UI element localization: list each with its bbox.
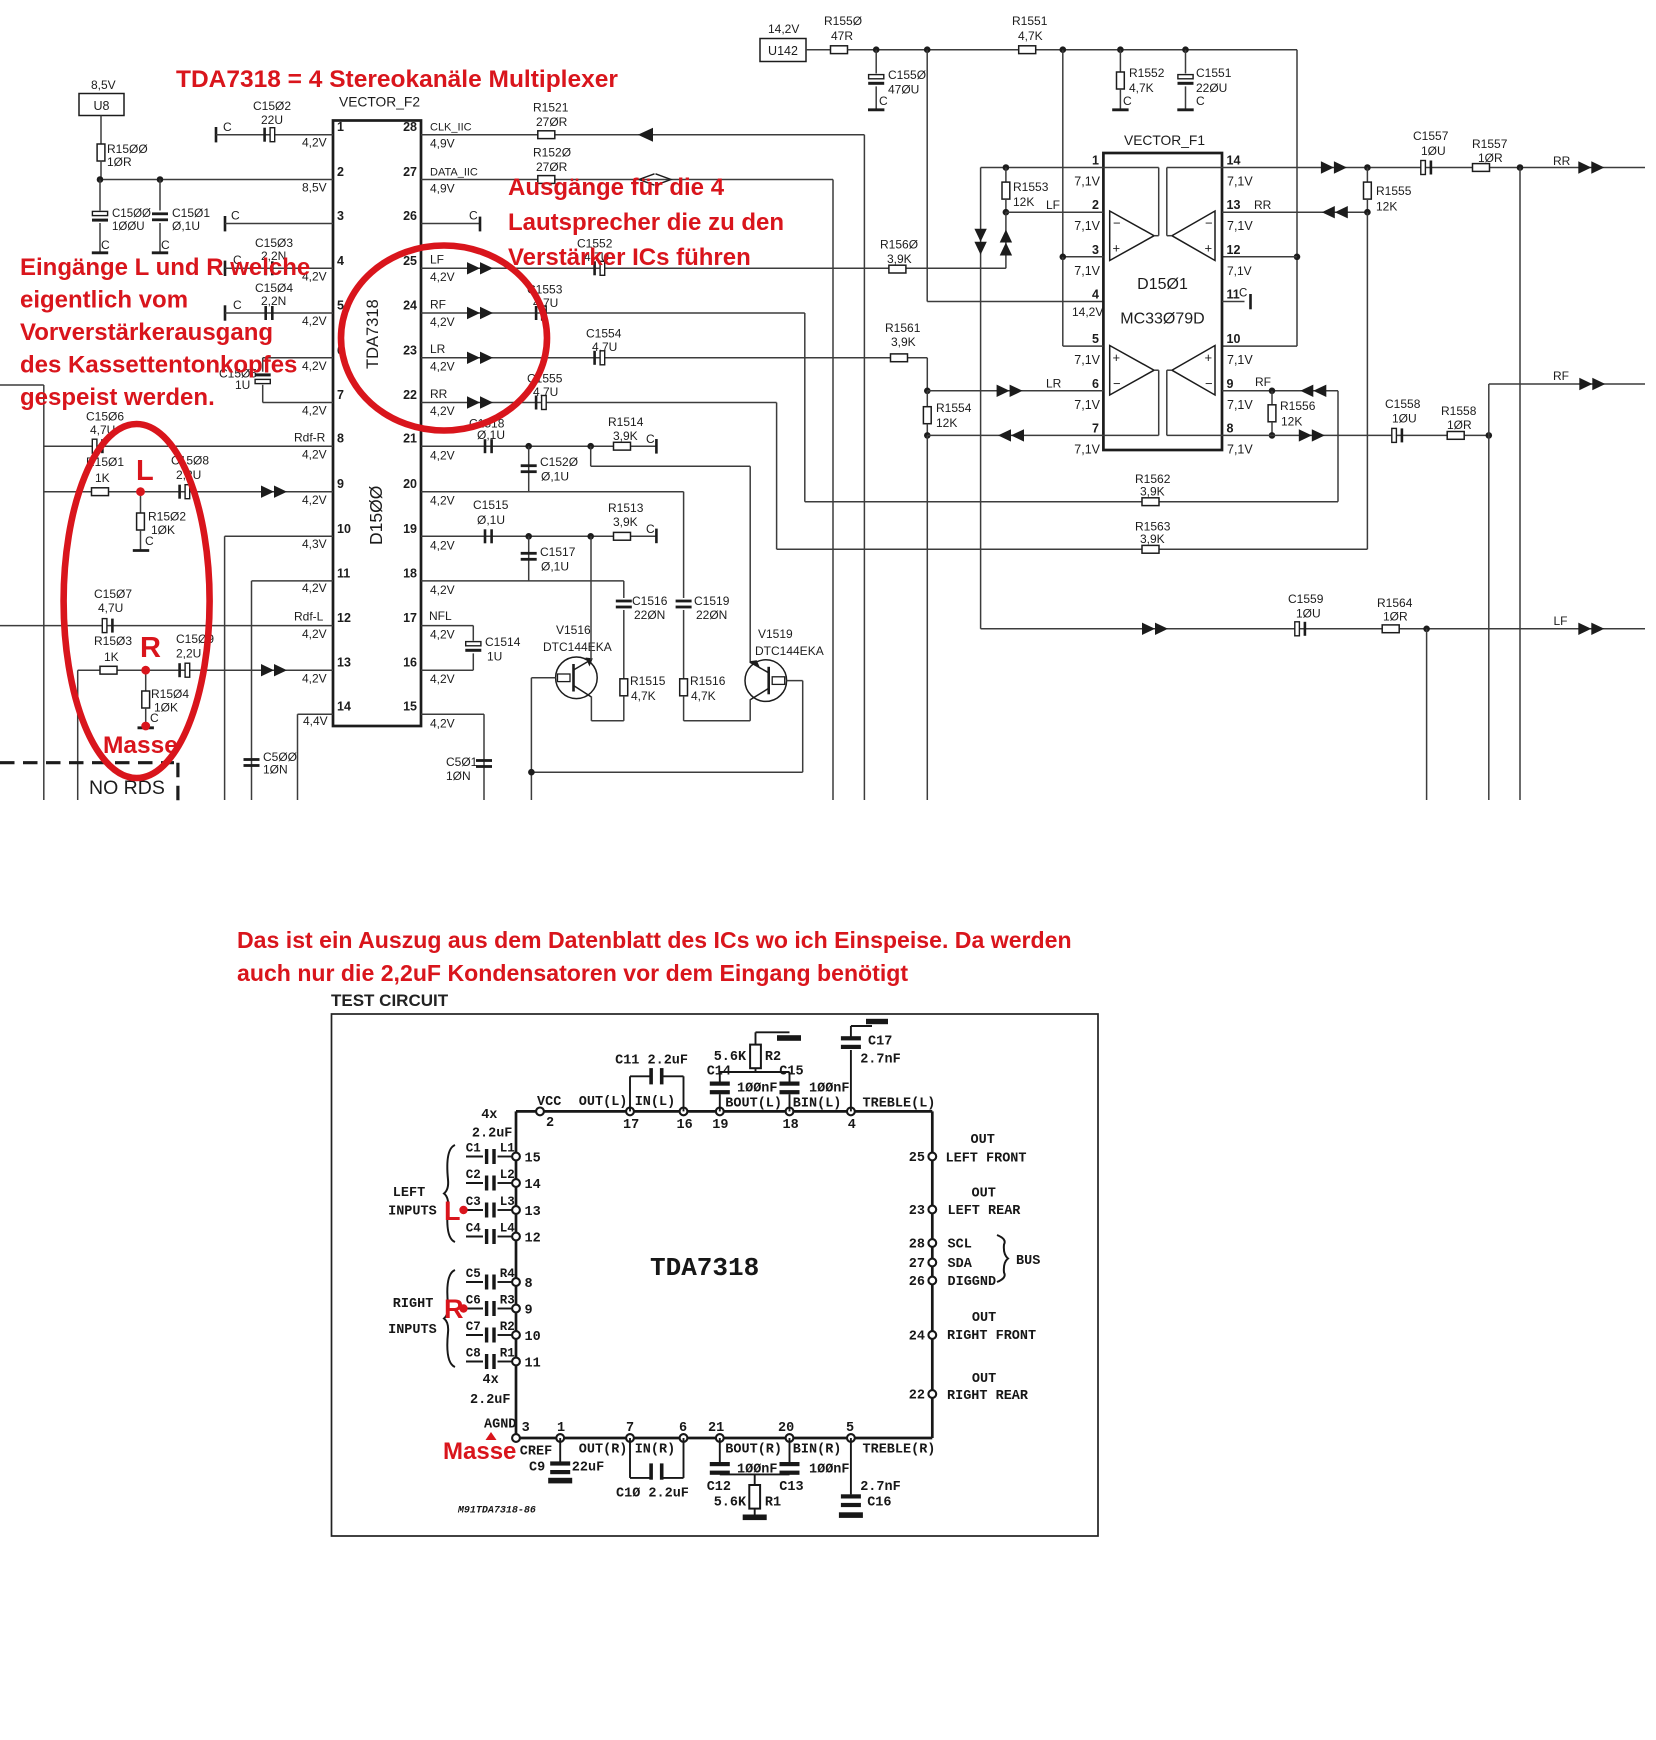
svg-text:4,2V: 4,2V [302, 136, 327, 150]
node LF input [1003, 209, 1010, 216]
wire pin9 corner to R1562 [1337, 391, 1339, 502]
capacitor C1520 pin21-pin20 [521, 446, 578, 492]
svg-text:12: 12 [337, 611, 351, 625]
svg-text:7,1V: 7,1V [1227, 398, 1253, 412]
svg-text:C17: C17 [868, 1034, 892, 1049]
resistor R1515 [620, 674, 666, 721]
node pin21-C1520 [525, 443, 532, 450]
svg-text:R1556: R1556 [1280, 399, 1316, 413]
svg-text:1U: 1U [487, 650, 502, 664]
connector stub C pin21 [646, 432, 656, 454]
svg-text:5.6K: 5.6K [714, 1496, 747, 1511]
capacitor C1502 on pin 1 [216, 99, 333, 150]
svg-text:U8: U8 [94, 99, 110, 113]
svg-text:C5Ø1: C5Ø1 [446, 755, 478, 769]
svg-text:Ausgänge für die 4: Ausgänge für die 4 [508, 174, 725, 201]
svg-text:LEFT: LEFT [393, 1186, 425, 1201]
pin 19 BOUT(L) [712, 1097, 782, 1134]
connector stub C pin19 [646, 522, 656, 543]
svg-text:C11 2.2uF: C11 2.2uF [615, 1054, 688, 1069]
label LF out [1554, 614, 1605, 635]
svg-text:7,1V: 7,1V [1074, 442, 1100, 456]
red title annotation [176, 66, 618, 93]
svg-text:10: 10 [1227, 332, 1241, 346]
wire pin 19 [421, 536, 656, 552]
svg-text:−: − [1205, 376, 1213, 391]
svg-text:7,1V: 7,1V [1227, 264, 1252, 278]
node B [157, 176, 164, 183]
pin 5 TREBLE(R) [846, 1421, 935, 1458]
svg-text:C8: C8 [466, 1346, 481, 1360]
svg-text:2,2N: 2,2N [261, 294, 286, 308]
node LR [924, 388, 931, 395]
svg-text:23: 23 [909, 1204, 925, 1219]
label NFL pin 17 [429, 609, 455, 642]
svg-text:TDA7318: TDA7318 [650, 1253, 759, 1283]
svg-text:C1516: C1516 [632, 594, 668, 608]
svg-text:R1555: R1555 [1376, 184, 1412, 198]
svg-text:BIN(L): BIN(L) [793, 1097, 842, 1112]
wire RF branch down [1488, 435, 1490, 800]
pin 1 OUT(R) [556, 1421, 627, 1458]
connector stub pin 3 [225, 209, 333, 232]
svg-text:V1519: V1519 [758, 627, 793, 641]
svg-text:4,2V: 4,2V [302, 314, 327, 328]
capacitor C1514 pin17-pin16 [421, 626, 521, 686]
svg-text:TREBLE(R): TREBLE(R) [863, 1443, 936, 1458]
svg-text:18: 18 [783, 1118, 799, 1133]
wire pin 21 [421, 446, 656, 462]
pin 7 IN(R) [626, 1421, 675, 1458]
svg-text:C: C [161, 238, 170, 252]
capacitor C1503 on pin 4 [225, 236, 333, 284]
svg-text:C15Ø6: C15Ø6 [86, 410, 124, 424]
svg-text:C15Ø1: C15Ø1 [172, 206, 210, 220]
wire rail corner to pin12/pin10 [1222, 50, 1297, 346]
svg-text:R15ØØ: R15ØØ [107, 142, 148, 156]
wire RR branch down [1519, 168, 1521, 801]
node C1551 [1182, 46, 1189, 53]
input capacitor C8 pin 11 [466, 1346, 541, 1371]
svg-text:5.6K: 5.6K [714, 1050, 747, 1065]
svg-text:4,2V: 4,2V [430, 449, 455, 463]
svg-text:L3: L3 [500, 1195, 515, 1209]
capacitor C13 [779, 1438, 849, 1495]
svg-text:20: 20 [778, 1421, 794, 1436]
svg-text:R1515: R1515 [630, 674, 666, 688]
wire pin 20 to C1519 [421, 492, 684, 598]
svg-text:1: 1 [557, 1421, 565, 1436]
wire pin 14 corner [298, 714, 334, 800]
pin 21 BOUT(R) [708, 1421, 782, 1458]
label M91TDA7318-86 [457, 1506, 536, 1517]
svg-text:4,7U: 4,7U [592, 340, 617, 354]
wire LF branch down [1426, 629, 1428, 800]
svg-text:12K: 12K [1013, 195, 1034, 209]
down arrows on pin1 branch [974, 229, 986, 255]
svg-text:7,1V: 7,1V [1227, 175, 1253, 189]
svg-text:13: 13 [337, 656, 351, 670]
op-amp U1A [1103, 168, 1158, 261]
capacitor C14 [707, 1064, 778, 1111]
resistor R2 [714, 1032, 790, 1072]
svg-text:LR: LR [430, 342, 446, 356]
svg-text:1ØK: 1ØK [151, 523, 175, 537]
svg-text:+: + [1113, 241, 1121, 256]
wire pin 7 [927, 429, 1103, 800]
svg-text:18: 18 [403, 566, 417, 580]
wire pin 22 RR [421, 387, 777, 418]
svg-text:R152Ø: R152Ø [533, 146, 571, 160]
svg-text:RR: RR [430, 387, 448, 401]
svg-text:C: C [223, 120, 232, 134]
svg-text:27: 27 [909, 1257, 925, 1272]
wire pin 28 CLK_IIC [421, 122, 864, 801]
svg-text:Verstärker ICs führen: Verstärker ICs führen [508, 244, 751, 271]
svg-text:8,5V: 8,5V [302, 181, 327, 195]
svg-text:22U: 22U [261, 113, 283, 127]
node pin3 branch [1060, 46, 1067, 53]
svg-text:1ØR: 1ØR [107, 155, 132, 169]
svg-text:22ØN: 22ØN [696, 608, 727, 622]
svg-text:3,9K: 3,9K [1140, 532, 1165, 546]
capacitor C1553 [527, 283, 563, 321]
svg-text:C: C [101, 238, 110, 252]
svg-text:BOUT(L): BOUT(L) [725, 1097, 782, 1112]
svg-text:3,9K: 3,9K [613, 429, 638, 443]
pin 18 BIN(L) [783, 1097, 842, 1134]
red annotation outputs [508, 174, 784, 271]
V1516 collector wire [590, 536, 592, 660]
svg-text:13: 13 [1227, 198, 1241, 212]
svg-text:C1517: C1517 [540, 545, 576, 559]
svg-text:C15: C15 [779, 1064, 803, 1079]
pin 22 OUT RIGHT REAR [909, 1372, 1029, 1404]
svg-text:C1514: C1514 [485, 635, 521, 649]
svg-text:4,2V: 4,2V [430, 494, 455, 508]
wire pin 9 RF [1222, 375, 1338, 397]
resistor R1555 [1364, 168, 1412, 214]
svg-text:4,2V: 4,2V [430, 583, 455, 597]
wire pin 10 corner [225, 536, 333, 800]
svg-text:12: 12 [1227, 243, 1241, 257]
brace RIGHT INPUTS [444, 1270, 455, 1367]
pin 26 DIGGND [909, 1275, 996, 1290]
svg-text:R155Ø: R155Ø [824, 14, 862, 28]
svg-text:C: C [1239, 288, 1247, 300]
svg-text:BUS: BUS [1016, 1254, 1040, 1269]
svg-text:24: 24 [909, 1330, 925, 1345]
svg-text:C: C [646, 522, 655, 536]
svg-text:Ø,1U: Ø,1U [477, 513, 505, 527]
svg-text:R3: R3 [500, 1293, 515, 1307]
resistor R1516 [680, 674, 726, 721]
svg-text:LEFT FRONT: LEFT FRONT [946, 1152, 1027, 1167]
IC D1501 (MC33079D) body [1103, 133, 1222, 450]
svg-text:R1554: R1554 [936, 401, 972, 415]
capacitor C17 [841, 1019, 901, 1112]
svg-text:2.2uF: 2.2uF [470, 1393, 511, 1408]
svg-text:R1558: R1558 [1441, 404, 1477, 418]
svg-text:6: 6 [1092, 377, 1099, 391]
svg-text:4,2V: 4,2V [430, 539, 455, 553]
node R1552 [1117, 46, 1124, 53]
svg-text:14,2V: 14,2V [1072, 305, 1103, 319]
svg-text:C16: C16 [867, 1496, 891, 1511]
node pin 12 D1501 [1294, 253, 1301, 260]
svg-text:DIGGND: DIGGND [948, 1275, 997, 1290]
svg-text:2: 2 [1092, 198, 1099, 212]
svg-text:C1519: C1519 [694, 594, 730, 608]
svg-text:4,2V: 4,2V [302, 359, 327, 373]
red Masse marker bottom [443, 1432, 516, 1465]
svg-text:RIGHT REAR: RIGHT REAR [947, 1389, 1029, 1404]
feedback wire R1562 row [805, 501, 1338, 503]
resistor R1513 [608, 501, 644, 540]
input capacitor C2 pin 14 [466, 1168, 541, 1193]
svg-text:5: 5 [1092, 332, 1099, 346]
svg-text:OUT: OUT [972, 1372, 996, 1387]
svg-text:7: 7 [1092, 421, 1099, 435]
pin 16 IN(L) [635, 1095, 693, 1133]
svg-text:7: 7 [337, 388, 344, 402]
svg-text:1U: 1U [235, 378, 250, 392]
node pin19-V1516 [587, 533, 594, 540]
capacitor C1551 [1177, 50, 1231, 110]
svg-text:R1513: R1513 [608, 501, 644, 515]
svg-text:Eingänge L und R welche: Eingänge L und R welche [20, 254, 310, 281]
svg-text:2.7nF: 2.7nF [860, 1053, 901, 1068]
capacitor C1515 [473, 498, 509, 543]
svg-text:7,1V: 7,1V [1074, 175, 1100, 189]
svg-text:VCC: VCC [537, 1095, 561, 1110]
node pin 8 [1269, 432, 1276, 439]
node R junction [142, 667, 149, 674]
svg-text:C: C [231, 209, 240, 223]
svg-text:7,1V: 7,1V [1227, 353, 1253, 367]
resistor R1504 to ground [138, 670, 190, 728]
svg-text:7: 7 [626, 1421, 634, 1436]
node L junction [137, 488, 144, 495]
svg-text:Ø,1U: Ø,1U [541, 470, 569, 484]
IC D1501 pin numbers [1092, 154, 1240, 436]
svg-text:R15Ø3: R15Ø3 [94, 634, 132, 648]
svg-text:20: 20 [403, 477, 417, 491]
svg-text:MC33Ø79D: MC33Ø79D [1120, 311, 1204, 328]
svg-text:C1558: C1558 [1385, 397, 1421, 411]
node A [97, 176, 104, 183]
pin 4 TREBLE(L) [847, 1097, 935, 1134]
svg-text:4,7K: 4,7K [691, 689, 716, 703]
resistor R1554 [923, 391, 971, 436]
svg-text:1ØØnF: 1ØØnF [809, 1081, 850, 1096]
resistor R1553 [1002, 168, 1049, 213]
arrows LF mid [1142, 623, 1168, 635]
wire RF up and out [1489, 369, 1645, 435]
svg-text:C: C [1196, 94, 1205, 108]
svg-text:28: 28 [909, 1238, 925, 1253]
capacitor C1507 on pin 12 Rdf-L [0, 587, 333, 641]
capacitor C1508 [171, 454, 209, 499]
svg-text:9: 9 [525, 1304, 533, 1319]
svg-text:8: 8 [1227, 421, 1234, 435]
svg-text:8: 8 [337, 432, 344, 446]
svg-text:DTC144EKA: DTC144EKA [543, 640, 612, 654]
svg-text:R1: R1 [500, 1346, 515, 1360]
svg-text:3: 3 [337, 209, 344, 223]
power label U142 [760, 22, 806, 62]
svg-text:6: 6 [679, 1421, 687, 1436]
svg-text:3,9K: 3,9K [613, 515, 638, 529]
svg-text:25: 25 [909, 1151, 925, 1166]
bottom pin bus [516, 1437, 932, 1440]
svg-text:auch nur die 2,2uF Kondensator: auch nur die 2,2uF Kondensatoren vor dem… [237, 960, 908, 986]
svg-text:5: 5 [846, 1421, 854, 1436]
wire pin 13 RR [1222, 198, 1367, 218]
svg-text:R15Ø2: R15Ø2 [148, 510, 186, 524]
capacitor C1500 [92, 180, 151, 253]
svg-text:SDA: SDA [948, 1257, 973, 1272]
svg-text:OUT: OUT [971, 1133, 995, 1148]
svg-text:25: 25 [403, 254, 417, 268]
resistor R1551 [1012, 14, 1048, 54]
svg-text:R: R [140, 632, 161, 664]
pin 24 OUT RIGHT FRONT [909, 1311, 1036, 1345]
svg-text:RIGHT FRONT: RIGHT FRONT [947, 1329, 1036, 1344]
svg-text:C: C [233, 298, 242, 312]
svg-text:24: 24 [403, 299, 417, 313]
svg-text:C15Ø4: C15Ø4 [255, 281, 293, 295]
capacitor C1518 [469, 417, 505, 454]
svg-text:C1551: C1551 [1196, 66, 1232, 80]
svg-text:R15Ø4: R15Ø4 [151, 687, 189, 701]
svg-text:4x: 4x [481, 1108, 497, 1123]
svg-text:R2: R2 [500, 1320, 515, 1334]
red annotation inputs [20, 254, 310, 411]
wire U142 to R1550 [806, 49, 831, 51]
power label U8 [79, 78, 124, 116]
svg-text:C14: C14 [707, 1064, 731, 1079]
svg-text:15: 15 [403, 700, 417, 714]
svg-text:3: 3 [1092, 243, 1099, 257]
node pin 7 [924, 432, 931, 439]
svg-text:14: 14 [337, 700, 351, 714]
svg-text:OUT(L): OUT(L) [579, 1095, 628, 1110]
resistor R1520 [533, 146, 571, 184]
svg-text:27: 27 [403, 165, 417, 179]
svg-text:4,2V: 4,2V [430, 404, 455, 418]
svg-text:17: 17 [623, 1118, 639, 1133]
svg-text:11: 11 [1227, 288, 1240, 302]
svg-text:1ØU: 1ØU [1296, 607, 1321, 621]
input capacitor C3 pin 13 [466, 1195, 541, 1220]
resistor R1502 to ground [133, 492, 187, 551]
svg-text:R1521: R1521 [533, 101, 569, 115]
hollow arrows on DATA line [639, 174, 671, 185]
svg-text:TDA7318 = 4 Stereokanäle Multi: TDA7318 = 4 Stereokanäle Multiplexer [176, 66, 618, 93]
svg-text:C3: C3 [466, 1195, 481, 1209]
node emitter return [528, 769, 535, 776]
test circuit border box [332, 1014, 1099, 1536]
svg-text:4,2V: 4,2V [302, 493, 327, 507]
transistor V1519 DTC144EKA [745, 627, 824, 701]
svg-text:1: 1 [1092, 154, 1099, 168]
wire pin 18 to C1516 [421, 581, 624, 598]
svg-text:4,2V: 4,2V [430, 717, 455, 731]
svg-text:4: 4 [1092, 288, 1099, 302]
svg-text:12K: 12K [1281, 415, 1302, 429]
svg-text:R156Ø: R156Ø [880, 238, 918, 252]
svg-text:OUT: OUT [972, 1187, 996, 1202]
svg-text:2.7nF: 2.7nF [860, 1480, 901, 1495]
wire RR corner down to R1563 row [776, 403, 778, 550]
svg-text:Vorverstärkerausgang: Vorverstärkerausgang [20, 319, 273, 346]
pin 6 IN(R) node [679, 1421, 687, 1442]
svg-text:1ØØU: 1ØØU [112, 221, 145, 233]
node pin21-branch [587, 443, 594, 450]
arrows from pin 25 [467, 262, 493, 274]
wire LF output row [981, 628, 1645, 630]
capacitor C1552 [577, 237, 613, 276]
label NO RDS [89, 777, 165, 799]
svg-text:C: C [646, 432, 655, 446]
wire pin 23 LR [421, 342, 927, 374]
node RR branch [1517, 164, 1524, 171]
wire U8 to R1500 [100, 116, 102, 146]
wire rail to pin 3 of D1501 [1062, 50, 1064, 257]
svg-text:4,7K: 4,7K [1129, 81, 1154, 95]
resistor R1563 [1135, 520, 1171, 554]
svg-text:4,2V: 4,2V [430, 360, 455, 374]
wire 14.2V to pin 4 of D1501 [927, 50, 1103, 319]
svg-text:SCL: SCL [948, 1238, 972, 1253]
svg-text:BOUT(R): BOUT(R) [725, 1443, 782, 1458]
svg-text:C1515: C1515 [473, 498, 509, 512]
capacitor C12 [707, 1438, 778, 1495]
svg-text:IN(R): IN(R) [635, 1443, 676, 1458]
svg-text:3,9K: 3,9K [891, 335, 916, 349]
svg-text:C12: C12 [707, 1480, 731, 1495]
wire Rdf-R entry [0, 385, 44, 800]
svg-text:LF: LF [1046, 198, 1060, 212]
brace LEFT INPUTS [444, 1145, 455, 1242]
node C1550 [873, 46, 880, 53]
node R1553 top [1003, 164, 1010, 171]
svg-text:Lautsprecher die zu den: Lautsprecher die zu den [508, 209, 784, 236]
capacitor C500 [244, 750, 298, 777]
svg-text:7,1V: 7,1V [1227, 219, 1253, 233]
pin 17 OUT(L) [579, 1095, 639, 1133]
arrows from pin 22 [467, 396, 493, 408]
svg-text:Ø,1U: Ø,1U [477, 428, 505, 442]
svg-text:2: 2 [546, 1116, 554, 1131]
label 4x 2.2uF left inputs [472, 1108, 513, 1142]
capacitor C1559 [1288, 592, 1324, 636]
capacitor C9 [529, 1438, 604, 1483]
svg-text:1ØU: 1ØU [1421, 144, 1446, 158]
input capacitor C4 pin 12 [466, 1221, 541, 1246]
svg-text:4,2V: 4,2V [302, 448, 327, 462]
svg-text:C: C [879, 94, 888, 108]
svg-text:RF: RF [1255, 375, 1271, 389]
svg-text:4,2V: 4,2V [302, 627, 327, 641]
svg-text:des Kassettentonkopfes: des Kassettentonkopfes [20, 352, 297, 379]
wire pin 12 D1501 [1222, 257, 1297, 278]
svg-text:RR: RR [1553, 154, 1571, 168]
svg-text:C15Ø2: C15Ø2 [253, 99, 291, 113]
label 4x 2.2uF right inputs [470, 1373, 511, 1408]
svg-text:D15ØØ: D15ØØ [366, 485, 386, 545]
